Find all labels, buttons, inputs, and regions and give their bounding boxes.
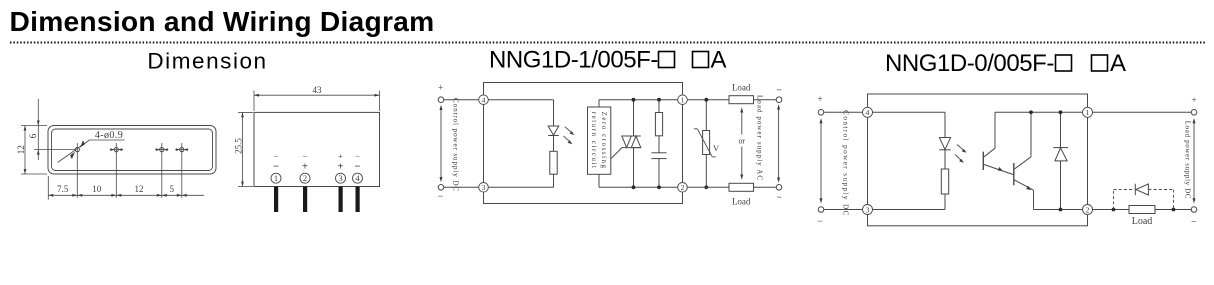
svg-text:12: 12 — [135, 184, 144, 194]
phototransistor Q1 — [983, 112, 1013, 174]
svg-text:or: or — [738, 136, 745, 145]
pin 1 lead — [274, 187, 278, 213]
load resistor bottom — [729, 183, 776, 206]
pin 2 terminal — [678, 183, 688, 193]
svg-text:Zero crossing: Zero crossing — [600, 112, 607, 170]
wire LED branch down — [944, 112, 946, 137]
svg-text:4-ø0.9: 4-ø0.9 — [95, 130, 123, 141]
svg-text:−: − — [1191, 217, 1197, 228]
output transistor Q2 — [1014, 112, 1034, 209]
svg-text:~: ~ — [777, 85, 782, 95]
pin number 1 — [271, 173, 281, 183]
svg-text:25.5: 25.5 — [233, 138, 243, 154]
svg-text:3: 3 — [482, 183, 486, 192]
output bottom rail — [1034, 209, 1083, 211]
svg-text:+: + — [438, 84, 443, 94]
svg-text:4: 4 — [482, 95, 486, 104]
svg-text:return circuit: return circuit — [590, 112, 597, 170]
svg-text:Dimension and Wiring Diagram: Dimension and Wiring Diagram — [10, 5, 435, 37]
svg-text:−: − — [274, 151, 279, 161]
wire LED branch down — [553, 100, 555, 126]
junction dots q2 — [1029, 110, 1033, 114]
top view inner outline — [52, 129, 213, 171]
pin number 2 — [300, 173, 310, 183]
wire - to pin3 — [444, 186, 479, 188]
dim 43 (width) — [254, 85, 380, 111]
section title NNG1D-1/005F — [489, 47, 727, 74]
wire resistor to bottom — [553, 174, 555, 187]
relay package outline — [868, 94, 1088, 226]
pin number 4 — [353, 173, 363, 183]
ac terminal bottom — [776, 185, 782, 191]
light emission arrows — [955, 145, 967, 163]
junction dots diode — [1059, 110, 1063, 114]
svg-text:NNG1D-0/005F-: NNG1D-0/005F- — [885, 50, 1054, 77]
dotted rule — [10, 42, 1206, 44]
svg-text:2: 2 — [303, 173, 307, 183]
svg-text:3: 3 — [338, 173, 342, 183]
pin 1 terminal — [678, 95, 688, 105]
relay package outline — [484, 83, 683, 204]
wire pin4 to LED branch — [488, 99, 553, 101]
svg-text:3: 3 — [866, 205, 870, 214]
pin 3 terminal — [863, 205, 873, 215]
triac Q1 — [611, 100, 641, 188]
svg-text:−: − — [355, 162, 361, 173]
pin 2 lead — [303, 187, 307, 213]
polarity marks lower row — [273, 162, 361, 173]
freewheeling diode D3 (dashed branch) — [1114, 184, 1174, 210]
wire pin4 to LED branch — [873, 111, 946, 113]
svg-text:4: 4 — [866, 108, 870, 117]
svg-text:5: 5 — [170, 184, 175, 194]
svg-text:V: V — [713, 143, 720, 153]
leader 4-ø0.9 — [58, 130, 125, 163]
varistor RV — [694, 100, 720, 188]
hole H1 — [75, 143, 79, 198]
wire pin3 rail — [488, 186, 553, 188]
polarity marks upper row — [274, 151, 361, 161]
svg-text:+: + — [338, 162, 344, 173]
junction dots varistor — [704, 98, 708, 102]
wire + to pin4 — [824, 111, 863, 113]
svg-text:A: A — [1110, 50, 1126, 77]
pin 3 terminal — [479, 183, 489, 193]
svg-text:1: 1 — [1086, 108, 1090, 117]
svg-text:Dimension: Dimension — [147, 48, 267, 73]
svg-text:7.5: 7.5 — [57, 184, 69, 194]
snubber resistor R2 — [655, 100, 662, 153]
light emission arrows — [564, 127, 575, 145]
ac supply arrow — [777, 104, 780, 182]
svg-text:2: 2 — [1086, 205, 1090, 214]
junction dots triac — [632, 98, 636, 102]
svg-text:Load: Load — [732, 197, 751, 207]
front view body — [254, 112, 380, 186]
wire pin2 to load — [1093, 209, 1130, 211]
svg-text:+: + — [302, 162, 308, 173]
svg-text:~: ~ — [777, 193, 782, 203]
or selector arrow — [738, 107, 745, 179]
resistor R1 (input) — [550, 151, 557, 174]
pin 1 terminal — [1083, 107, 1093, 117]
pin 4 terminal — [479, 95, 489, 105]
wire zc box bottom — [598, 174, 600, 187]
wire - to pin3 — [824, 209, 863, 211]
hole H4 — [175, 143, 188, 198]
pin number 3 — [336, 173, 346, 183]
svg-text:−: − — [438, 192, 444, 203]
output bottom rail — [599, 186, 678, 188]
svg-text:A: A — [711, 47, 727, 74]
svg-text:Load: Load — [732, 83, 751, 93]
triac gate wire — [611, 148, 622, 159]
pin 4 terminal — [863, 107, 873, 117]
dim 25.5 (height) — [233, 112, 253, 186]
LED D1 — [548, 126, 559, 151]
svg-text:4: 4 — [355, 173, 360, 183]
ac terminal top — [776, 97, 782, 103]
wire pin1 to + terminal — [1093, 111, 1192, 113]
svg-text:−: − — [303, 151, 308, 161]
wire resistor to pin3 rail — [944, 194, 946, 210]
svg-text:43: 43 — [313, 85, 323, 95]
top view outer body — [48, 126, 216, 175]
svg-text:Control power supply DC: Control power supply DC — [451, 98, 459, 192]
LED D1 — [939, 138, 950, 170]
svg-text:2: 2 — [681, 183, 685, 192]
junction dots load — [1112, 208, 1116, 212]
svg-text:NNG1D-1/005F-: NNG1D-1/005F- — [489, 47, 658, 74]
output top rail — [599, 99, 678, 101]
pin 4 lead — [356, 187, 360, 213]
svg-text:1: 1 — [274, 173, 278, 183]
wire zc box top — [598, 100, 600, 107]
svg-text:6: 6 — [28, 133, 38, 138]
load resistor top — [729, 83, 776, 104]
svg-text:Load power supply AC: Load power supply AC — [756, 95, 764, 181]
wire pin1 to load — [687, 99, 729, 101]
svg-text:+: + — [1191, 96, 1196, 106]
control supply arrow — [820, 118, 823, 204]
svg-text:+: + — [338, 151, 343, 161]
svg-text:10: 10 — [92, 184, 102, 194]
diode D2 — [1053, 112, 1068, 209]
control supply arrow — [440, 105, 443, 182]
hole H2 — [110, 143, 123, 198]
zero crossing circuit box U1 — [588, 107, 611, 174]
wire pin2 to load — [687, 186, 729, 188]
svg-text:1: 1 — [681, 95, 685, 104]
load supply arrow — [1193, 118, 1196, 204]
junction dots snubber — [657, 98, 661, 102]
svg-text:Load: Load — [1132, 216, 1153, 227]
svg-text:−: − — [273, 162, 279, 173]
svg-text:+: + — [817, 95, 822, 105]
svg-text:−: − — [817, 217, 823, 228]
pin 2 terminal — [1083, 205, 1093, 215]
hole H3 — [155, 143, 168, 198]
snubber capacitor C1 — [651, 153, 666, 188]
resistor R1 (input) — [941, 169, 948, 194]
svg-text:−: − — [355, 151, 360, 161]
wire + to pin4 — [444, 99, 479, 101]
section title NNG1D-0/005F — [885, 50, 1126, 77]
output top rail — [995, 111, 1083, 113]
svg-text:12: 12 — [16, 145, 26, 154]
bottom dimension line 7.5 10 12 5 — [48, 176, 204, 200]
pin 3 lead — [339, 187, 343, 213]
load resistor — [1129, 206, 1191, 228]
svg-text:Load power supply DC: Load power supply DC — [1184, 121, 1192, 200]
svg-text:Control power supply DC: Control power supply DC — [842, 110, 850, 217]
dim 12 (left height) — [16, 126, 47, 175]
dim 6 (to hole line) — [28, 99, 75, 160]
